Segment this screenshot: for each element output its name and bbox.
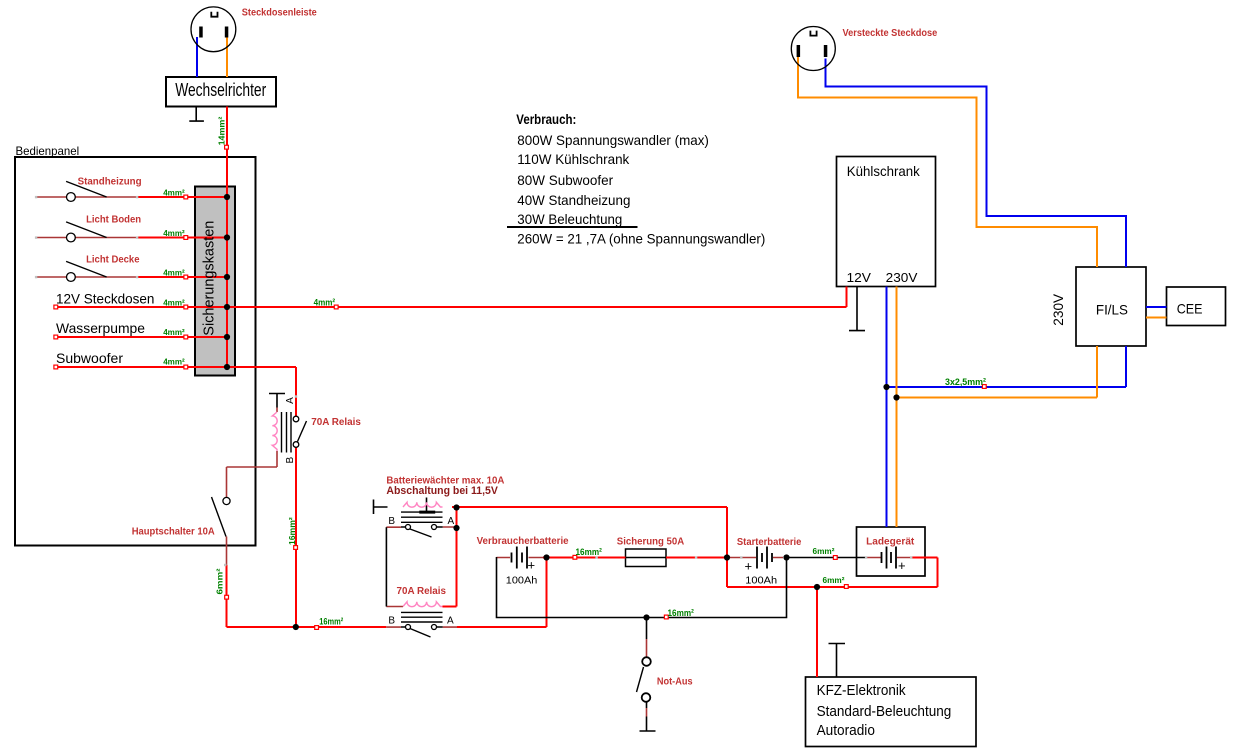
- svg-text:Sicherungskasten: Sicherungskasten: [201, 221, 218, 336]
- svg-text:Verbraucherbatterie: Verbraucherbatterie: [477, 536, 569, 547]
- svg-text:800W Spannungswandler (max): 800W Spannungswandler (max): [517, 132, 709, 148]
- svg-text:B: B: [388, 516, 395, 527]
- svg-text:B: B: [388, 615, 395, 626]
- svg-text:CEE: CEE: [1177, 301, 1203, 317]
- svg-text:80W Subwoofer: 80W Subwoofer: [517, 172, 613, 188]
- svg-text:FI/LS: FI/LS: [1096, 302, 1128, 318]
- svg-text:A: A: [285, 397, 296, 404]
- svg-text:Verbrauch:: Verbrauch:: [516, 111, 576, 127]
- svg-text:Standheizung: Standheizung: [78, 177, 142, 188]
- svg-text:+: +: [898, 558, 906, 573]
- svg-text:Abschaltung bei 11,5V: Abschaltung bei 11,5V: [386, 485, 498, 497]
- svg-text:14mm²: 14mm²: [217, 117, 227, 146]
- svg-text:KFZ-Elektronik: KFZ-Elektronik: [817, 682, 906, 699]
- svg-text:100Ah: 100Ah: [506, 574, 538, 586]
- svg-text:4mm²: 4mm²: [163, 267, 185, 277]
- svg-text:Steckdosenleiste: Steckdosenleiste: [242, 8, 317, 19]
- svg-text:Bedienpanel: Bedienpanel: [16, 144, 80, 158]
- svg-text:4mm²: 4mm²: [314, 297, 336, 308]
- svg-text:16mm²: 16mm²: [576, 547, 602, 558]
- svg-text:12V: 12V: [847, 270, 872, 285]
- svg-text:Subwoofer: Subwoofer: [56, 350, 123, 366]
- svg-text:+: +: [528, 558, 536, 573]
- svg-text:Starterbatterie: Starterbatterie: [737, 537, 802, 548]
- svg-text:Ladegerät: Ladegerät: [866, 537, 915, 548]
- svg-text:6mm²: 6mm²: [823, 575, 845, 585]
- svg-text:Wasserpumpe: Wasserpumpe: [56, 320, 145, 336]
- svg-text:Kühlschrank: Kühlschrank: [847, 163, 921, 179]
- svg-text:4mm²: 4mm²: [163, 297, 185, 307]
- svg-text:A: A: [448, 516, 455, 527]
- svg-text:B: B: [285, 456, 296, 463]
- svg-text:Not-Aus: Not-Aus: [657, 677, 693, 688]
- svg-text:Versteckte Steckdose: Versteckte Steckdose: [843, 28, 938, 39]
- svg-text:100Ah: 100Ah: [745, 575, 777, 587]
- svg-text:70A Relais: 70A Relais: [397, 586, 447, 597]
- svg-text:16mm²: 16mm²: [319, 616, 343, 627]
- svg-text:Hauptschalter 10A: Hauptschalter 10A: [132, 527, 215, 538]
- svg-text:260W = 21 ,7A (ohne Spannungsw: 260W = 21 ,7A (ohne Spannungswandler): [517, 231, 765, 247]
- svg-text:Licht Decke: Licht Decke: [86, 254, 140, 265]
- svg-text:6mm²: 6mm²: [813, 546, 835, 556]
- svg-text:Wechselrichter: Wechselrichter: [175, 80, 266, 100]
- svg-text:40W Standheizung: 40W Standheizung: [517, 192, 630, 208]
- svg-text:6mm²: 6mm²: [214, 568, 224, 594]
- svg-text:4mm²: 4mm²: [163, 228, 185, 238]
- svg-text:Licht Boden: Licht Boden: [86, 215, 141, 226]
- svg-text:16mm²: 16mm²: [287, 517, 297, 545]
- svg-text:12V Steckdosen: 12V Steckdosen: [56, 290, 154, 306]
- svg-text:3x2,5mm²: 3x2,5mm²: [945, 377, 986, 388]
- svg-text:4mm²: 4mm²: [163, 357, 185, 367]
- svg-text:30W Beleuchtung: 30W Beleuchtung: [517, 211, 622, 227]
- svg-text:16mm²: 16mm²: [668, 608, 694, 619]
- svg-text:230V: 230V: [1050, 293, 1066, 325]
- svg-text:Sicherung 50A: Sicherung 50A: [617, 536, 684, 547]
- svg-text:4mm²: 4mm²: [163, 187, 185, 197]
- svg-text:Autoradio: Autoradio: [817, 722, 875, 739]
- svg-text:A: A: [447, 615, 454, 626]
- svg-text:110W Kühlschrank: 110W Kühlschrank: [517, 151, 630, 167]
- svg-text:4mm²: 4mm²: [163, 327, 185, 337]
- svg-text:70A Relais: 70A Relais: [311, 417, 361, 428]
- svg-text:Standard-Beleuchtung: Standard-Beleuchtung: [817, 703, 952, 720]
- svg-text:+: +: [745, 559, 753, 574]
- svg-text:230V: 230V: [886, 270, 918, 285]
